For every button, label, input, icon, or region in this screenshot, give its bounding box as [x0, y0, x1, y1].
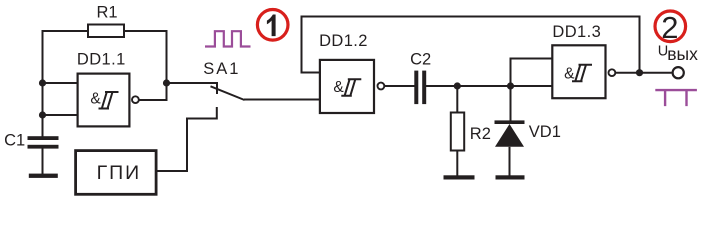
ground bar under R2	[444, 175, 475, 179]
node junction dot E	[507, 82, 514, 89]
ground bar under VD1	[496, 175, 525, 179]
generator GPI box	[76, 151, 157, 195]
wire DD1.1 input 2	[43, 114, 78, 116]
output terminal circle	[673, 67, 684, 78]
svg-text:DD1.2: DD1.2	[319, 32, 368, 50]
waveform square pulses (purple) at node 1	[205, 31, 251, 46]
DD1.1 schmitt hysteresis symbol	[99, 92, 119, 109]
svg-text:&: &	[564, 65, 575, 82]
svg-text:&: &	[90, 90, 101, 107]
wire DD1.1 output	[139, 83, 167, 101]
resistor R2	[451, 113, 464, 151]
node junction dot F	[636, 69, 643, 76]
logic gate DD1.3 box	[552, 45, 605, 98]
wire node F to output terminal	[640, 72, 672, 74]
svg-text:C2: C2	[410, 51, 431, 69]
wire R1 left lead	[42, 30, 89, 32]
svg-text:DD1.1: DD1.1	[77, 51, 126, 69]
wire node E down to VD1	[510, 86, 512, 121]
wire SA1 output to DD1.2 input 2	[244, 99, 320, 101]
ground bar under C1	[29, 174, 58, 178]
wire R1 right vertical down to node	[166, 30, 168, 83]
svg-text:SA1: SA1	[203, 60, 240, 78]
wire feedback loop DD1.2 (top)	[302, 17, 640, 73]
wire node E up and to DD1.3 input 1	[510, 59, 553, 87]
svg-text:VD1: VD1	[529, 123, 561, 141]
wire lower contact to GPI generator	[158, 119, 217, 172]
DD1.3 schmitt hysteresis symbol	[572, 65, 592, 82]
svg-text:2: 2	[661, 10, 678, 45]
DD1.3 output inversion bubble	[609, 69, 616, 76]
node 1 digit	[267, 15, 276, 37]
wire node D to node E	[457, 85, 510, 87]
svg-text:R1: R1	[96, 4, 117, 22]
DD1.2 schmitt hysteresis symbol	[341, 79, 361, 96]
wire C1 bottom lead	[42, 148, 44, 175]
capacitor C1 top plate	[28, 136, 59, 140]
switch SA1 lever	[211, 86, 245, 100]
logic gate DD1.1 box	[78, 74, 130, 127]
wire VD1 bottom lead	[509, 147, 511, 176]
wire node to switch SA1	[167, 82, 218, 84]
wire DD1.2 input 1	[301, 72, 321, 74]
capacitor C1 bottom plate	[28, 145, 59, 149]
node junction dot output node	[163, 79, 170, 86]
wire node D down to R2	[456, 86, 458, 113]
switch SA1 lower throw contact stub	[216, 107, 218, 120]
node junction dot input 2	[39, 111, 46, 118]
wire R2 bottom lead	[456, 151, 458, 177]
wire node E to DD1.3 input 2	[511, 85, 553, 87]
wire DD1.2 output to C2	[384, 85, 414, 87]
diode VD1 triangle	[495, 124, 524, 147]
wire C2 to node D	[426, 85, 457, 87]
DD1.1 output inversion bubble	[132, 96, 139, 103]
node junction dot input 1	[39, 79, 46, 86]
svg-text:вых: вых	[667, 44, 698, 64]
diode VD1 cathode bar	[495, 120, 525, 124]
svg-text:C1: C1	[4, 132, 25, 150]
wire R1 right lead	[124, 30, 167, 32]
switch SA1 fixed contact stub	[216, 82, 218, 94]
svg-text:DD1.3: DD1.3	[552, 23, 601, 41]
logic gate DD1.2 box	[320, 60, 374, 113]
node junction dot D	[454, 82, 461, 89]
capacitor C2 right plate	[422, 71, 426, 105]
svg-text:&: &	[333, 79, 344, 96]
wire DD1.3 output to node F	[615, 72, 639, 74]
node 1 red circle marker	[257, 9, 288, 40]
waveform short negative pulses (purple) at node 2	[655, 90, 697, 106]
wire left bus vertical (R1/C1/DD1.1 inputs)	[42, 31, 44, 137]
DD1.2 output inversion bubble	[378, 83, 385, 90]
resistor R1	[88, 25, 124, 38]
node 2 red circle marker	[655, 11, 686, 42]
svg-text:ГПИ: ГПИ	[97, 162, 142, 184]
svg-text:R2: R2	[470, 125, 491, 143]
capacitor C2 left plate	[414, 71, 418, 105]
wire DD1.1 input 1	[43, 82, 78, 84]
